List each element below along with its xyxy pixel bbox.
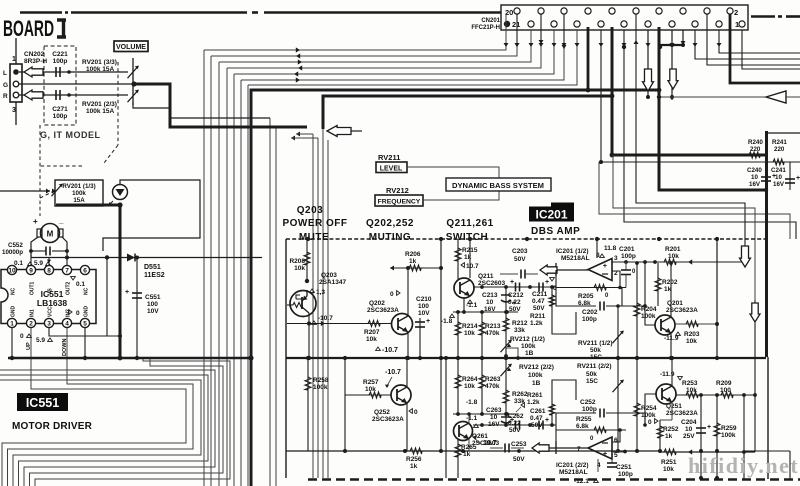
svg-text:-11.9: -11.9 (660, 371, 675, 378)
wire pin8 lead (48, 258, 50, 266)
DBS box right border lower (767, 357, 769, 479)
transistor Q201 (655, 315, 675, 335)
svg-text:-12.1: -12.1 (574, 478, 589, 485)
capacitor C261 sym (538, 421, 540, 430)
wire pin 695 right (695, 30, 800, 59)
svg-text:NC: NC (11, 287, 17, 295)
wire Q251 base (645, 394, 656, 425)
wire bus y62 from connector to bundle (219, 30, 531, 62)
capacitor C251 (611, 459, 613, 463)
svg-text:6: 6 (614, 437, 618, 444)
svg-text:_: _ (58, 216, 64, 225)
resistor R208 (306, 239, 308, 283)
svg-text:RV212 (1/2): RV212 (1/2) (510, 336, 545, 343)
resistor R204 (636, 263, 638, 358)
svg-text:+: + (426, 318, 430, 325)
motor M551 (41, 224, 60, 243)
connector CN201 top pin 588 (585, 8, 591, 14)
wire lower bus y451 (286, 450, 661, 452)
connector CN202 pin R (13, 92, 19, 98)
resistor R201 (664, 259, 676, 265)
resistor R241 (773, 159, 784, 165)
wire Q203 base (287, 304, 293, 306)
svg-text:-11.9: -11.9 (664, 335, 679, 342)
svg-text:M5218AL: M5218AL (561, 255, 590, 262)
wire into RV201 1/3 (0, 190, 50, 192)
svg-text:IC201 (1/2): IC201 (1/2) (556, 248, 589, 255)
svg-text:SWITCH: SWITCH (446, 232, 488, 243)
svg-text:-10.7: -10.7 (382, 347, 398, 354)
wire Q251 emitter (671, 402, 673, 420)
svg-text:Q203: Q203 (321, 272, 337, 279)
svg-text:DYNAMIC BASS SYSTEM: DYNAMIC BASS SYSTEM (452, 181, 544, 190)
wire Q261 collector (468, 414, 470, 423)
wire y395 lower (676, 394, 755, 396)
svg-text:10k: 10k (464, 330, 475, 337)
wire pin 648 drop with arrow (647, 30, 649, 97)
svg-text:0.1: 0.1 (76, 281, 85, 288)
connector CN201 body (501, 5, 748, 30)
svg-text:C261: C261 (530, 408, 546, 415)
wire into arrow (351, 130, 362, 132)
svg-text:C213: C213 (482, 292, 498, 299)
svg-text:G: G (3, 82, 8, 89)
svg-text:+: + (125, 289, 129, 296)
svg-text:50V: 50V (531, 422, 543, 429)
svg-text:CN202: CN202 (24, 51, 45, 58)
voltage 0 Q252 (409, 409, 412, 414)
wire Q201 collector (670, 263, 672, 317)
resistor R264 (457, 358, 459, 414)
wire R211 feedback (552, 287, 576, 334)
svg-text:FREQUENCY: FREQUENCY (378, 199, 421, 206)
svg-text:C252: C252 (580, 399, 596, 406)
svg-text:10.7: 10.7 (466, 263, 479, 270)
svg-text:10: 10 (8, 268, 16, 275)
svg-text:R258: R258 (313, 377, 329, 384)
svg-text:5: 5 (614, 452, 618, 459)
svg-text:0: 0 (648, 419, 652, 426)
connector CN201 bottom pin 577 (574, 21, 580, 27)
wire x744 lower (743, 395, 745, 479)
wire Q211 emitter (463, 298, 465, 312)
svg-text:16V: 16V (773, 181, 785, 188)
svg-text:15C: 15C (590, 354, 602, 361)
svg-text:NC: NC (84, 287, 90, 295)
svg-text:RV211 (1/2): RV211 (1/2) (578, 340, 613, 347)
wire x345 (344, 358, 346, 451)
svg-text:R211: R211 (530, 313, 546, 320)
wire CN202 stem (15, 38, 17, 64)
svg-text:5: 5 (83, 321, 87, 328)
resistor R262 (505, 358, 507, 414)
transistor Q211 (454, 278, 474, 298)
wire pin 672 drop with arrow (671, 30, 673, 100)
wire thick right vertical x659 (T4) (659, 90, 766, 190)
voltage 10.7 (461, 263, 464, 268)
svg-text:MUTE: MUTE (299, 232, 329, 243)
wire bus y56 from connector to bundle (211, 14, 517, 56)
capacitor C262 sym (515, 421, 517, 430)
svg-text:RV212: RV212 (386, 186, 409, 195)
svg-text:3: 3 (47, 321, 51, 328)
wire bundle vertical x211 (210, 56, 212, 486)
resistor R205 (594, 285, 606, 291)
svg-text:50V: 50V (533, 305, 545, 312)
svg-text:100k: 100k (313, 384, 328, 391)
voltage -1.8 (450, 314, 455, 317)
svg-text:R261: R261 (527, 392, 543, 399)
wire Q202 emitter (407, 332, 409, 358)
svg-text:100p: 100p (53, 58, 68, 65)
resistor R214 (457, 312, 459, 358)
svg-text:BOARD: BOARD (3, 16, 54, 41)
svg-text:10: 10 (751, 174, 758, 181)
wire Q252 collector (406, 358, 408, 387)
svg-text:470k: 470k (485, 383, 500, 390)
transistor Q261 (454, 422, 473, 441)
arrowhead R201 (688, 259, 692, 264)
resistor R215 (457, 239, 459, 280)
svg-text:6: 6 (83, 268, 87, 275)
pot RV211 1/2 (617, 306, 619, 358)
resistor R254 (636, 358, 638, 451)
svg-text:CN201: CN201 (481, 18, 500, 24)
wire bus y50 from connector to bundle (204, 14, 506, 50)
svg-text:OUT2: OUT2 (66, 281, 72, 295)
svg-text:10k: 10k (686, 338, 697, 345)
wire bundle vertical x219 (218, 62, 220, 486)
resistor R209 (721, 392, 733, 398)
svg-text:R265: R265 (461, 444, 477, 451)
svg-text:1: 1 (10, 321, 14, 328)
svg-text:50V: 50V (514, 256, 526, 263)
svg-text:+: + (33, 217, 38, 226)
IC551 pin 8 (44, 265, 53, 274)
resistor R256 (410, 448, 422, 454)
connector CN202 pin G (13, 81, 19, 87)
svg-text:220: 220 (774, 146, 785, 153)
svg-text:R255: R255 (576, 416, 592, 423)
svg-text:R263: R263 (485, 376, 501, 383)
wire nested frame top y361 (35, 358, 230, 486)
svg-text:100p: 100p (582, 406, 597, 413)
wire aux x107 (106, 258, 108, 337)
svg-text:OUT1: OUT1 (30, 281, 36, 295)
wire Q261 emitter (468, 438, 470, 451)
wire bus y85 from connector to bundle (248, 30, 577, 85)
resistor R202 (657, 263, 659, 306)
wire Q203 emitter down (308, 313, 310, 358)
svg-text:11.8: 11.8 (604, 245, 617, 252)
voltage -10.7 Q202 (376, 347, 381, 350)
resistor R255 loop (556, 430, 626, 448)
svg-text:220: 220 (750, 146, 761, 153)
wire LEVEL link (407, 167, 499, 178)
svg-text:1k: 1k (409, 258, 417, 265)
svg-text:100k: 100k (721, 432, 736, 439)
svg-text:POWER OFF: POWER OFF (282, 218, 347, 229)
svg-text:R202: R202 (662, 279, 678, 286)
svg-text:1B: 1B (525, 350, 534, 357)
svg-text:-10.7: -10.7 (318, 315, 333, 322)
wire corner y208 (613, 155, 755, 300)
wire nested frame top y366 (30, 358, 224, 486)
svg-text:0.47: 0.47 (530, 415, 543, 422)
svg-text:-10.7: -10.7 (385, 369, 401, 376)
IC201 block label (529, 207, 574, 222)
arrowhead y138 (291, 136, 295, 141)
DBS box top border (286, 238, 767, 240)
connector CN201 bottom pin 742 (739, 21, 745, 27)
wire nested frame top y375 (0, 375, 208, 486)
pot RV201 2/3 element (132, 86, 134, 105)
op-amp pin1 tick (555, 263, 557, 276)
svg-text:R206: R206 (405, 251, 421, 258)
wire R channel to DBS (133, 103, 270, 118)
wire R206 (390, 267, 441, 269)
IC551 pin 9 (26, 265, 35, 274)
svg-text:DOWN: DOWN (62, 339, 68, 356)
wire pin 742 right (742, 30, 800, 69)
wire Q202 collector (407, 268, 409, 316)
node volume wiper junction (131, 81, 136, 86)
svg-text:10k: 10k (663, 466, 674, 473)
svg-text:R207: R207 (364, 329, 380, 336)
connector CN201 top pin 636 (633, 8, 639, 14)
pot gang dashed link (117, 62, 119, 145)
svg-text:RV201 (2/3): RV201 (2/3) (82, 101, 117, 108)
svg-text:DBS AMP: DBS AMP (531, 226, 580, 237)
svg-text:Q211: Q211 (478, 273, 494, 280)
capacitor C201 (625, 262, 627, 270)
arrowhead on bus (296, 53, 300, 58)
svg-text:+: + (545, 279, 549, 286)
svg-text:0: 0 (632, 269, 636, 275)
diode D551 (127, 254, 135, 262)
svg-text:C552: C552 (8, 242, 23, 249)
wire pin 624 drop (624, 30, 796, 239)
wire Q211 collector to top (469, 239, 471, 278)
svg-text:-1.1: -1.1 (466, 415, 478, 422)
svg-text:Q252: Q252 (374, 409, 390, 416)
svg-text:R257: R257 (363, 379, 379, 386)
svg-text:-1.1: -1.1 (466, 302, 478, 309)
svg-text:10000p: 10000p (2, 249, 23, 256)
capacitor C211 top (538, 283, 540, 292)
svg-text:0: 0 (390, 291, 394, 298)
resistor R263 (481, 358, 483, 414)
wire x790 lower (789, 451, 791, 479)
LEVEL box (376, 162, 407, 173)
pot RV212 2/2 (501, 364, 512, 376)
wire motor left lead (31, 237, 38, 257)
svg-text:25V: 25V (683, 433, 695, 440)
op-amp U1 IC201 1/2 (588, 259, 612, 281)
connector CN201 bottom pin 695 (692, 21, 698, 27)
svg-text:FFC21P-H: FFC21P-H (471, 25, 500, 31)
capacitor C240 (765, 155, 767, 190)
svg-text:R262: R262 (512, 391, 528, 398)
svg-text:100p: 100p (621, 253, 636, 260)
IC551 pin 7 (62, 265, 71, 274)
wire supply bus y257 (31, 257, 262, 259)
wire pin 707 right (707, 14, 800, 65)
svg-text:11ES2: 11ES2 (144, 272, 165, 279)
svg-text:RV211 (2/2): RV211 (2/2) (577, 363, 612, 370)
svg-text:C551: C551 (145, 294, 161, 301)
wire gnd bus IC551 (8, 357, 250, 360)
transistor Q252 (391, 385, 411, 405)
wire bundle vertical x248 (247, 85, 249, 486)
svg-text:C241: C241 (771, 167, 786, 174)
wire bundle x276 (275, 127, 277, 486)
wire y97 with direction triangle (659, 96, 800, 98)
svg-text:R208: R208 (289, 258, 305, 265)
svg-text:C251: C251 (616, 464, 632, 471)
svg-text:10k: 10k (366, 336, 377, 343)
svg-text:8: 8 (47, 268, 51, 275)
svg-text:R259: R259 (721, 425, 737, 432)
wire motor right lead (62, 237, 67, 257)
wire opamp2 V- pin4 (597, 459, 599, 472)
capacitor C263 sym (505, 414, 507, 425)
wire B2 x328 (327, 140, 329, 478)
IC551 pin 5 (80, 318, 89, 327)
svg-text:100p: 100p (582, 316, 597, 323)
svg-text:RV211: RV211 (378, 153, 400, 162)
svg-text:0.47: 0.47 (532, 298, 545, 305)
wire thick bus y96 (T3) (323, 27, 612, 129)
arrowhead on bus (298, 65, 302, 70)
svg-text:IC201: IC201 (535, 208, 567, 222)
capacitor C252 loop (556, 413, 596, 430)
svg-text:R256: R256 (406, 456, 422, 463)
connector CN201 top pin 659 (656, 8, 662, 14)
svg-text:50k: 50k (586, 371, 597, 378)
resistor R213 (481, 312, 483, 358)
wire bundle vertical x204 (203, 50, 205, 486)
svg-text:C204: C204 (681, 419, 697, 426)
svg-text:C221: C221 (52, 51, 68, 58)
svg-text:33k: 33k (514, 327, 525, 334)
wire x446 lower (445, 358, 447, 478)
resistor R252 (659, 420, 661, 451)
connector CN201 bottom pin 554 (551, 21, 557, 27)
svg-text:-1.8: -1.8 (466, 399, 478, 406)
voltage 1,3 (310, 289, 315, 292)
svg-text:2: 2 (29, 321, 33, 328)
svg-text:100k 15A: 100k 15A (86, 66, 114, 73)
svg-text:IN1: IN1 (30, 309, 36, 317)
svg-text:100k: 100k (641, 313, 656, 320)
svg-text:2SC3623A: 2SC3623A (372, 416, 404, 423)
svg-text:10: 10 (775, 174, 782, 181)
svg-text:RV212 (2/2): RV212 (2/2) (519, 364, 554, 371)
svg-text:33k: 33k (514, 398, 525, 405)
svg-text:GND: GND (84, 306, 90, 318)
wire nested frame top y384 (8, 328, 194, 486)
pot RV212 1/2 (501, 340, 512, 352)
svg-text:10: 10 (490, 414, 498, 421)
capacitor C202 (556, 288, 596, 307)
wire B2 x323 (322, 129, 324, 478)
IC551 block label (17, 393, 68, 411)
wire Q202 base (287, 323, 392, 325)
svg-text:IC201 (2/2): IC201 (2/2) (556, 462, 589, 469)
IC551 pin 1 (7, 318, 16, 327)
connector CN201 top pin 730 (727, 8, 733, 14)
svg-text:1k: 1k (665, 433, 673, 440)
voltage -1.1 Q211 (468, 300, 473, 303)
wire pin3 VCC (49, 328, 120, 336)
wire x441 (440, 239, 442, 358)
wire x717 (716, 239, 718, 358)
IC551 pin 6 (80, 265, 89, 274)
connector CN201 bottom pin 601 (598, 21, 604, 27)
wire fb down (621, 287, 623, 306)
pot RV201 3/3 element (132, 58, 134, 82)
wire thick LED rail down (119, 205, 122, 358)
arrow R input (24, 90, 43, 100)
wire corner y214 (599, 162, 790, 239)
svg-text:RV201 (3/3): RV201 (3/3) (82, 59, 117, 66)
wire thick RV201 to LED rail (56, 204, 120, 207)
svg-text:0: 0 (590, 436, 594, 442)
capacitor C221 (55, 67, 57, 77)
resistor R205 loop (556, 270, 626, 288)
svg-text:C203: C203 (512, 248, 528, 255)
dashed model link (39, 125, 41, 216)
wire x441 lower (440, 358, 442, 451)
svg-text:R253: R253 (682, 380, 698, 387)
svg-text:R212: R212 (512, 320, 528, 327)
svg-text:50V: 50V (509, 427, 521, 434)
wire pin 517 stub (516, 14, 518, 47)
svg-text:15A: 15A (73, 197, 85, 204)
wire pin3 input y262 (612, 261, 745, 263)
svg-text:M5218AL: M5218AL (559, 469, 588, 476)
connector CN201 top pin 612 (609, 8, 615, 14)
svg-text:2SA1347: 2SA1347 (319, 279, 346, 286)
capacitor C551 (136, 257, 138, 358)
wire pin 588 thick drop (587, 27, 590, 90)
wire bundle vertical x227 (226, 68, 228, 486)
pot RV211 2/2 (617, 358, 619, 451)
svg-text:10: 10 (685, 426, 693, 433)
svg-text:10: 10 (486, 299, 494, 306)
connector CN201 pin 21 filled pin (504, 21, 510, 27)
svg-text:VS: VS (48, 288, 54, 295)
wire pin5 to gnd bus (84, 328, 86, 358)
arrowhead on bus (298, 59, 302, 64)
svg-text:10V: 10V (147, 308, 159, 315)
connector CN201 bottom pin 648 (645, 21, 651, 27)
wire fb to pot (644, 262, 646, 306)
wire pin9 lead (30, 251, 32, 265)
svg-text:50k: 50k (590, 347, 601, 354)
IC551 pin 3 (44, 318, 53, 327)
svg-text:R241: R241 (772, 139, 787, 146)
connector CN201 top pin 707 (704, 8, 710, 14)
svg-text:10.7: 10.7 (483, 440, 497, 447)
connector CN201 top pin 541 (538, 8, 544, 14)
svg-text:+: + (603, 451, 607, 458)
capacitor C271 (55, 90, 57, 100)
wire caps bus y425 (473, 424, 556, 426)
svg-text:1.2k: 1.2k (527, 399, 540, 406)
svg-text:1k: 1k (463, 451, 471, 458)
